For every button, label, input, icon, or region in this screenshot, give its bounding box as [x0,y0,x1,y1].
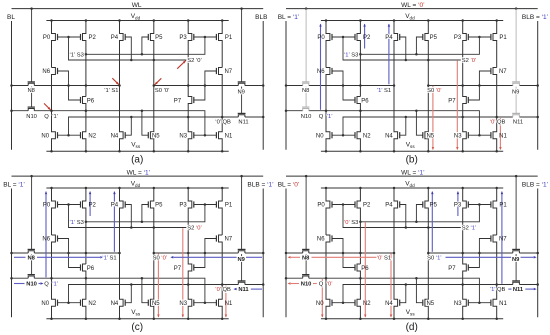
wire VDD rail [46,187,228,189]
transistor N6 [52,235,56,278]
wire P4 gate stub [125,205,131,228]
node QB junctions [461,283,464,286]
node WL gate taps [305,7,308,10]
svg-text:N2: N2 [363,301,371,307]
wire N6-P6 gate net [58,71,81,100]
svg-text:N7: N7 [499,69,507,75]
wire P5 gate stub [416,37,422,54]
wire N4 gate stub [400,117,406,135]
transistor P7 [463,253,467,285]
wire P0-P2 gate net [332,36,355,38]
svg-text:Q: Q [319,282,324,288]
svg-text:BLB = ‘1’: BLB = ‘1’ [522,14,549,21]
transistor N5 [425,86,428,152]
arrow current N5 branch down [157,253,159,317]
transistor N8 access [28,251,34,253]
node VSS taps [325,150,328,153]
transistor P1 [219,188,223,235]
svg-text:P5: P5 [155,35,163,41]
wire BL bit line [285,21,287,150]
node VSS taps [50,317,53,320]
svg-text:N4: N4 [385,301,393,307]
svg-text:‘0’ QB: ‘0’ QB [490,120,506,126]
svg-text:N5: N5 [152,133,160,139]
svg-text:‘1’ S1: ‘1’ S1 [102,255,116,261]
arrow current BLB to QB [236,288,238,290]
wire node Q line [286,110,303,112]
arrow current Q to BL [291,283,299,285]
svg-text:P1: P1 [499,203,507,209]
transistor P3 [188,188,192,253]
transistor P5 [425,188,428,253]
wire node S1 row [12,252,29,254]
wire node S1 row [286,252,303,254]
transistor N2 [83,278,86,319]
wire N0-N2 gate net [332,134,355,136]
transistor P5 [150,188,153,253]
svg-text:N4: N4 [111,301,119,307]
wire N4 gate stub [400,285,406,303]
wire N7-P7 gate net [194,239,217,268]
wire N3-N1 gate net [194,302,217,304]
wire node S2 line [69,205,187,228]
wire node QB line [343,285,513,303]
svg-text:N2: N2 [88,133,96,139]
node Q junctions [10,109,13,112]
wire WL word line [12,175,264,177]
svg-text:‘1’ S3: ‘1’ S3 [344,52,358,58]
svg-text:‘1’ QB: ‘1’ QB [490,287,506,293]
transistor N7 [493,68,497,118]
svg-text:‘1’ S1: ‘1’ S1 [377,88,391,94]
svg-text:P3: P3 [179,35,187,41]
transistor N10 access [303,109,309,111]
node WL gate taps [30,175,32,178]
svg-text:S0 ‘0’: S0 ‘0’ [153,255,168,261]
svg-text:N3: N3 [454,301,462,307]
wire P3-P1 gate net [194,36,217,38]
svg-text:‘1’ S3: ‘1’ S3 [70,52,84,58]
wire WL stub left [31,9,33,82]
wire WL stub right [241,9,243,82]
svg-text:N11: N11 [238,120,248,126]
transistor P4 [120,21,124,86]
wire node S3 line [86,37,205,54]
svg-text:N9: N9 [237,257,245,263]
svg-text:N6: N6 [42,69,50,75]
arrow current BL to Q [14,283,25,285]
svg-text:Q: Q [44,282,49,288]
wire P4 gate stub [125,37,131,60]
arrow current P3 branch up [457,192,459,216]
svg-text:N8: N8 [302,256,310,262]
svg-text:N5: N5 [426,133,434,139]
svg-text:(b): (b) [406,154,418,165]
node VDD taps [50,19,53,22]
svg-text:WL = ‘0’: WL = ‘0’ [401,2,425,9]
transistor P7 [188,86,192,118]
arrow current P0-N6 branch up [320,24,322,110]
node VSS taps [50,150,53,153]
node S1 junctions [285,252,288,255]
transistor P1 [493,21,497,68]
svg-text:N7: N7 [224,237,232,243]
wire P0-P2 gate net [58,36,81,38]
transistor P4 [120,188,124,253]
svg-text:WL = ‘1’: WL = ‘1’ [127,170,151,177]
arrow current N5 branch down [432,86,434,150]
node VSS taps [325,317,328,320]
transistor P0 [326,188,330,235]
wire N0-N2 gate net [58,302,81,304]
node QB junctions [187,283,190,286]
svg-text:N1: N1 [225,301,233,307]
svg-text:S0 ‘1’: S0 ‘1’ [427,255,442,261]
svg-text:S0 ‘0’: S0 ‘0’ [155,88,170,94]
arrow current N1 branch down [225,286,227,317]
wire WL word line [12,8,264,10]
svg-text:(c): (c) [131,322,143,333]
wire BLB bit line bar [537,189,539,318]
wire P4 gate stub [400,205,406,228]
wire node S2 line [343,205,461,228]
arrow current QB to BLB [508,288,511,290]
transistor N2 [83,111,86,152]
wire WL word line [286,175,538,177]
svg-text:N6: N6 [42,237,50,243]
transistor N4 [120,86,124,152]
wire node Q line [286,277,303,279]
transistor N11 access [238,115,245,117]
node S1 junctions [10,252,13,255]
svg-text:‘0’ QB: ‘0’ QB [215,287,231,293]
node S3 junctions [85,53,88,56]
wire N5 gate stub [416,111,422,136]
svg-text:N7: N7 [499,237,507,243]
wire node S0 row [428,85,513,87]
wire node QB line [69,285,239,303]
svg-text:N1: N1 [499,133,507,139]
transistor N5 [150,253,153,319]
svg-text:P7: P7 [448,266,456,272]
wire N6-P6 gate net [332,239,355,268]
wire P3-P1 gate net [468,36,491,38]
transistor N4 [394,253,398,319]
svg-text:P7: P7 [448,98,456,104]
arrow pointer node S1 [112,78,119,85]
transistor N7 [219,68,223,118]
node S1 junctions [285,84,288,87]
node Q junctions [285,277,288,280]
svg-text:P3: P3 [454,35,462,41]
transistor P1 [219,21,223,68]
svg-text:N3: N3 [179,133,187,139]
svg-text:N5: N5 [152,301,160,307]
wire BL bit line [11,21,13,150]
svg-text:‘0’ S1: ‘0’ S1 [377,255,391,261]
svg-text:P2: P2 [363,35,371,41]
transistor N11 access [513,282,520,284]
svg-text:P6: P6 [361,266,369,272]
node S0 junctions [427,84,430,87]
wire BLB bit line bar [262,21,264,150]
wire N5 gate stub [142,111,148,136]
node QB junctions [461,116,464,119]
wire node QB line [69,117,239,135]
wire node S0 row [428,252,513,254]
transistor N11 access [238,282,245,284]
transistor N9 access [238,83,245,85]
svg-text:N10: N10 [26,281,37,287]
transistor N0 [326,278,330,319]
svg-text:Q: Q [319,114,324,120]
arrow current P0-N6 branch up [45,192,47,278]
svg-text:(d): (d) [406,322,418,333]
wire node S2 line [69,37,187,60]
svg-text:P1: P1 [225,35,233,41]
wire node Q line [12,277,29,279]
wire N7-P7 gate net [468,71,491,100]
node S2 junctions [153,226,156,229]
transistor N8 access [28,83,34,85]
wire P5 gate stub [142,37,148,54]
wire WL stub left [31,176,33,249]
transistor N1 [219,117,223,151]
arrow current BLB to S0 [174,256,237,258]
svg-text:P4: P4 [111,35,119,41]
transistor N2 [357,278,360,319]
transistor N6 [52,68,56,111]
svg-text:P0: P0 [317,203,325,209]
node S0 junctions [427,252,430,255]
svg-text:BL: BL [7,14,15,21]
wire WL word line [286,8,538,10]
svg-text:N8: N8 [302,88,309,94]
svg-text:S2 ‘0’: S2 ‘0’ [462,58,477,64]
arrow pointer node Q [44,103,51,110]
svg-text:WL = ‘1’: WL = ‘1’ [401,170,425,177]
svg-text:N8: N8 [27,256,35,262]
transistor N1 [219,285,223,319]
node WL gate taps [305,175,308,178]
svg-text:P6: P6 [87,98,95,104]
svg-text:N11: N11 [513,287,524,293]
wire node S3 line [86,205,205,222]
svg-text:(a): (a) [131,154,143,165]
svg-text:‘1’ S3: ‘1’ S3 [70,220,84,226]
svg-text:N10: N10 [26,114,37,120]
wire WL stub left [305,176,307,249]
svg-text:‘0’: ‘0’ [327,282,333,288]
svg-text:N1: N1 [225,133,233,139]
node S2 junctions [153,59,156,62]
svg-text:P0: P0 [43,203,51,209]
wire P5 gate stub [416,205,422,222]
node S2 junctions [427,226,430,229]
wire N5 gate stub [142,278,148,303]
svg-text:WL: WL [132,2,142,9]
wire N7-P7 gate net [468,239,491,268]
arrow pointer node S2 [177,61,186,69]
svg-text:‘1’: ‘1’ [52,114,58,120]
transistor N0 [326,111,330,152]
node S3 junctions [85,221,88,224]
transistor N3 [188,117,192,151]
transistor N1 [493,285,497,319]
svg-text:S0 ‘0’: S0 ‘0’ [427,88,442,94]
svg-text:N1: N1 [499,301,507,307]
svg-text:BLB = ‘1’: BLB = ‘1’ [522,182,549,189]
svg-text:N4: N4 [385,133,393,139]
svg-text:N0: N0 [41,301,49,307]
svg-text:P6: P6 [87,266,95,272]
panel (b) standby [278,2,549,165]
transistor N7 [493,235,497,285]
node VDD taps [325,19,328,22]
arrow current P5 branch up [431,192,433,252]
svg-text:P4: P4 [385,35,393,41]
svg-text:BLB = ‘1’: BLB = ‘1’ [247,182,274,189]
transistor P3 [188,21,192,86]
svg-text:‘1’ S1: ‘1’ S1 [104,88,118,94]
svg-text:P6: P6 [361,98,369,104]
svg-text:P4: P4 [111,203,119,209]
svg-text:N9: N9 [512,89,519,95]
arrow pointer node S0 [155,78,162,85]
wire node Q line [12,110,29,112]
svg-text:‘0’ S3: ‘0’ S3 [344,220,358,226]
wire P4 gate stub [400,37,406,60]
svg-text:N3: N3 [454,133,462,139]
arrow current BL to S1 [14,256,26,258]
svg-text:P3: P3 [179,203,187,209]
arrow current N4 branch down [390,253,392,317]
svg-text:BL = ‘1’: BL = ‘1’ [278,14,300,21]
wire P0-P2 gate net [58,204,81,206]
svg-text:P7: P7 [174,98,182,104]
svg-text:P7: P7 [174,266,182,272]
transistor N3 [463,117,467,151]
transistor P3 [463,188,467,253]
wire P3-P1 gate net [468,204,491,206]
svg-text:N7: N7 [224,69,232,75]
svg-text:P2: P2 [363,203,371,209]
wire node S0 row [154,85,239,87]
svg-text:P0: P0 [43,35,51,41]
wire node S1 row [286,85,303,87]
node S3 junctions [359,221,362,224]
wire N0-N2 gate net [58,134,81,136]
wire VSS rail [321,150,503,152]
transistor P6 [357,97,360,111]
transistor N3 [463,285,467,319]
node S1 junctions [10,84,13,87]
panel (c) read operation [3,170,274,333]
wire N3-N1 gate net [468,302,491,304]
wire node S0 row [154,252,239,254]
svg-text:N11: N11 [513,120,523,126]
transistor P6 [83,97,86,111]
node Q junctions [10,277,13,280]
wire VDD rail [321,187,503,189]
svg-text:P0: P0 [317,35,325,41]
transistor N9 access [238,251,245,253]
svg-text:N2: N2 [88,301,96,307]
wire VSS rail [46,318,228,320]
wire node S1 row [12,85,29,87]
svg-text:N9: N9 [512,257,520,263]
wire N4 gate stub [125,117,131,135]
wire node S2 line [343,37,461,60]
transistor N5 [425,253,428,319]
wire N3-N1 gate net [468,134,491,136]
wire N6-P6 gate net [58,239,81,268]
transistor P7 [188,253,192,285]
svg-text:P1: P1 [499,35,507,41]
transistor P5 [425,21,428,86]
svg-text:N10: N10 [301,281,312,287]
transistor N3 [188,285,192,319]
transistor P5 [150,21,153,86]
transistor P6 [357,264,360,278]
transistor N11 access [513,115,520,117]
arrow current P4 branch up [388,24,390,84]
svg-text:BLB: BLB [255,14,267,21]
transistor N10 access [28,109,34,111]
arrow current S2-N3 branch down [456,61,458,150]
svg-text:N0: N0 [316,133,324,139]
wire VSS rail [321,318,503,320]
wire node S3 line [360,205,479,222]
transistor P4 [394,21,398,86]
transistor P2 [357,188,360,264]
svg-text:P5: P5 [430,203,438,209]
arrow current S2-N3 branch down [182,228,184,317]
arrow current S3-N2 branch down [364,222,366,317]
transistor N6 [326,68,330,111]
svg-text:N10: N10 [301,114,312,120]
wire VDD rail [46,20,228,22]
svg-text:N5: N5 [426,301,434,307]
wire WL stub right [515,9,517,82]
wire N0-N2 gate net [332,302,355,304]
svg-text:N6: N6 [317,69,325,75]
svg-text:N0: N0 [316,301,324,307]
node VDD taps [50,187,53,190]
transistor N7 [219,235,223,285]
arrow current S0 to BLB [446,256,512,258]
transistor P0 [52,188,56,235]
svg-text:S2 ‘1’: S2 ‘1’ [462,226,477,232]
wire P0-P2 gate net [332,204,355,206]
arrow current N0 branch down [321,279,323,317]
svg-text:P5: P5 [430,35,438,41]
wire BL bit line [285,189,287,318]
transistor P2 [83,188,86,264]
transistor N10 access [28,276,34,278]
wire BL bit line [11,189,13,318]
svg-text:BL = ‘0’: BL = ‘0’ [278,181,300,188]
transistor N5 [150,86,153,152]
arrow current P2 branch up [364,24,366,48]
transistor N4 [120,253,124,319]
transistor N9 access [513,251,520,253]
svg-text:‘0’ QB: ‘0’ QB [215,120,231,126]
svg-text:P3: P3 [454,203,462,209]
svg-text:S2 ‘0’: S2 ‘0’ [187,58,202,64]
transistor N8 access [303,83,309,85]
svg-text:N2: N2 [363,133,371,139]
